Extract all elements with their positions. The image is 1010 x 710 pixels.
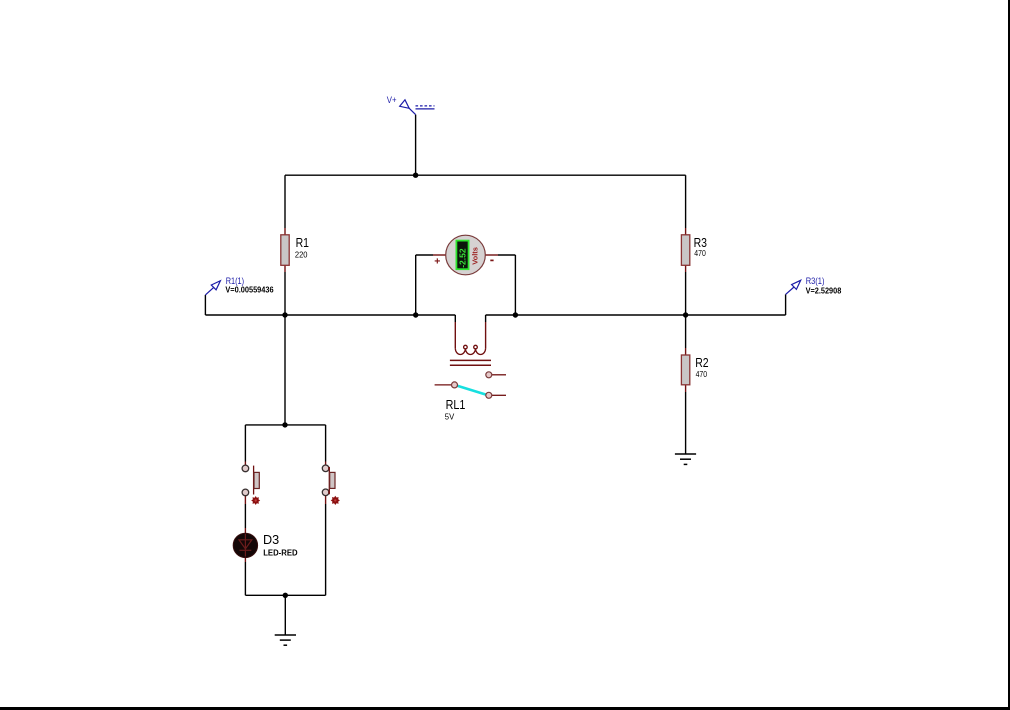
svg-text:470: 470	[696, 370, 708, 379]
svg-text:V=0.00559436: V=0.00559436	[225, 285, 274, 294]
svg-text:470: 470	[694, 249, 706, 258]
svg-text:R1: R1	[296, 235, 309, 250]
svg-text:RL1: RL1	[446, 397, 466, 412]
svg-text:V+: V+	[387, 95, 397, 105]
svg-text:Volts: Volts	[471, 247, 480, 265]
svg-text:+: +	[434, 256, 440, 268]
svg-text:LED-RED: LED-RED	[263, 549, 298, 558]
svg-text:R3: R3	[694, 235, 707, 250]
svg-text:D3: D3	[263, 532, 279, 547]
svg-text:R2: R2	[695, 355, 708, 370]
svg-text:-2.52: -2.52	[458, 248, 468, 268]
svg-text:5V: 5V	[445, 413, 455, 422]
svg-text:220: 220	[295, 251, 308, 260]
svg-text:V=2.52908: V=2.52908	[806, 286, 842, 295]
svg-text:R1(1): R1(1)	[226, 276, 244, 286]
svg-text:R3(1): R3(1)	[806, 276, 825, 286]
